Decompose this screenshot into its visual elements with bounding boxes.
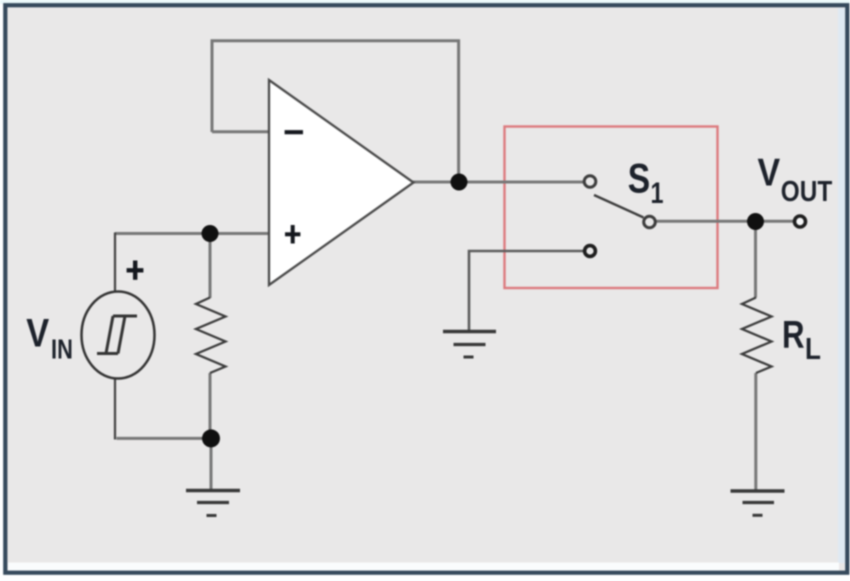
svg-text:1: 1 (651, 176, 664, 209)
svg-text:V: V (758, 150, 781, 194)
svg-text:IN: IN (51, 334, 73, 365)
svg-text:OUT: OUT (781, 175, 833, 207)
svg-text:L: L (805, 332, 821, 367)
svg-text:V: V (26, 310, 49, 355)
svg-text:S: S (628, 156, 650, 202)
svg-text:R: R (782, 313, 805, 356)
